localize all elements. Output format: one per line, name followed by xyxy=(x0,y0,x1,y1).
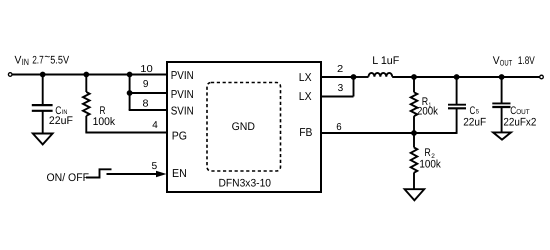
wire pin 8 xyxy=(129,109,167,111)
svg-text:2: 2 xyxy=(337,64,344,75)
wire LX pin 3 xyxy=(321,96,354,98)
ground COUT xyxy=(493,132,511,139)
wire C5 top lead xyxy=(456,77,458,105)
svg-text:GND: GND xyxy=(232,121,255,133)
wire R bottom lead xyxy=(85,116,87,133)
resistor R2 xyxy=(411,148,418,173)
svg-text:22uFx2: 22uFx2 xyxy=(503,117,536,129)
svg-text:100k: 100k xyxy=(419,159,441,171)
wire EN with arrow xyxy=(107,173,159,175)
node junction R1 top xyxy=(411,74,417,80)
svg-text:IN: IN xyxy=(22,57,29,67)
GND pad dashed box xyxy=(207,83,281,172)
wire CIN bottom lead xyxy=(42,111,44,134)
svg-text:22uF: 22uF xyxy=(463,116,486,128)
wire LX to inductor xyxy=(354,76,369,78)
wire VIN rail xyxy=(12,74,167,76)
wire R2 top lead xyxy=(413,133,415,148)
wire pin 9 xyxy=(130,92,167,94)
svg-text:DFN3x3-10: DFN3x3-10 xyxy=(219,178,272,190)
svg-text:8: 8 xyxy=(143,99,149,110)
wire VOUT rail xyxy=(392,76,540,78)
node junction FB xyxy=(411,130,417,136)
resistor R xyxy=(83,92,90,116)
ground R2 xyxy=(405,189,425,200)
node junction C5 xyxy=(454,74,460,80)
svg-text:PG: PG xyxy=(172,131,187,143)
op-amp U1 IC body DFN3x3-10 xyxy=(167,62,321,192)
wire C5 bottom lead xyxy=(456,108,458,134)
svg-text:L 1uF: L 1uF xyxy=(372,55,399,67)
svg-text:R: R xyxy=(100,105,106,117)
svg-text:PVIN: PVIN xyxy=(171,70,194,82)
svg-text:SVIN: SVIN xyxy=(171,106,194,118)
svg-text:22uF: 22uF xyxy=(49,115,73,127)
svg-text:C: C xyxy=(470,105,476,117)
wire PG xyxy=(85,132,167,134)
wire COUT top lead xyxy=(501,77,503,103)
resistor R1 xyxy=(411,92,418,116)
wire COUT bottom lead xyxy=(501,107,503,132)
capacitor C5 xyxy=(448,105,466,109)
output terminal xyxy=(540,75,544,79)
capacitor COUT xyxy=(492,103,510,107)
node junction R xyxy=(83,72,89,78)
svg-text:2.7: 2.7 xyxy=(32,55,44,67)
svg-text:4: 4 xyxy=(152,120,158,131)
input terminal xyxy=(8,73,12,77)
svg-text:5: 5 xyxy=(152,161,158,172)
svg-text:PVIN: PVIN xyxy=(171,89,194,101)
wire R2 bottom lead xyxy=(413,173,415,190)
ground CIN xyxy=(33,134,53,145)
rising edge symbol xyxy=(86,169,112,177)
inductor L xyxy=(369,73,393,77)
wire R1 top lead xyxy=(413,77,415,92)
svg-text:10: 10 xyxy=(140,64,153,75)
node junction pin9 xyxy=(127,90,133,96)
svg-text:EN: EN xyxy=(172,168,187,180)
svg-text:200k: 200k xyxy=(417,106,438,118)
svg-text:100k: 100k xyxy=(93,116,116,128)
svg-text:OUT: OUT xyxy=(500,58,512,67)
wire LX vertical join xyxy=(353,77,355,97)
svg-text:ON/ OFF: ON/ OFF xyxy=(47,172,90,184)
svg-text:FB: FB xyxy=(299,127,312,139)
node junction CIN xyxy=(40,72,46,78)
svg-text:9: 9 xyxy=(143,79,149,90)
wire FB xyxy=(321,132,457,134)
node junction COUT xyxy=(499,74,505,80)
svg-text:OUT: OUT xyxy=(516,109,530,116)
wire R top lead xyxy=(85,75,87,93)
wire branch vertical xyxy=(129,75,131,111)
svg-text:5: 5 xyxy=(476,109,480,116)
svg-text:R: R xyxy=(424,147,430,159)
wire LX pin 2 xyxy=(321,76,354,78)
wire R1 bottom lead xyxy=(413,116,415,133)
svg-text:5.5V: 5.5V xyxy=(50,55,69,67)
svg-text:1.8V: 1.8V xyxy=(518,55,535,67)
svg-text:6: 6 xyxy=(336,122,342,133)
svg-text:LX: LX xyxy=(299,72,312,84)
node junction LX xyxy=(351,74,357,80)
node junction branch top xyxy=(127,72,133,78)
capacitor CIN xyxy=(32,105,53,111)
svg-text:LX: LX xyxy=(299,91,312,103)
svg-text:3: 3 xyxy=(338,83,344,94)
wire CIN top lead xyxy=(42,75,44,106)
